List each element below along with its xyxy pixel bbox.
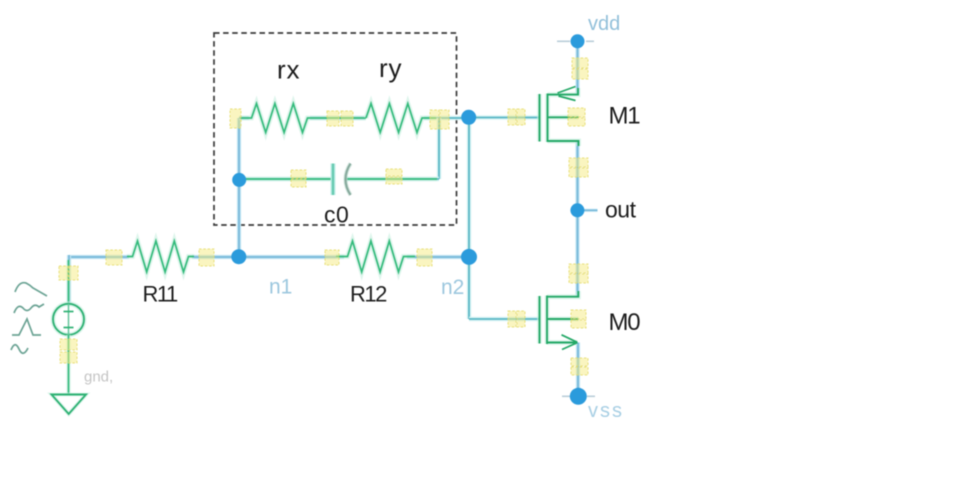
- capacitor C0 right plate (curved): [346, 164, 351, 196]
- svg-text:R11: R11: [143, 282, 178, 307]
- M1 source arrow: [558, 87, 576, 101]
- resistor ry: [366, 104, 436, 133]
- svg-text:n2: n2: [441, 276, 464, 299]
- svg-text:vss: vss: [588, 400, 624, 422]
- wire: vdd down to M1 source: [575, 41, 579, 94]
- svg-text:n1: n1: [269, 276, 292, 299]
- svg-text:vdd: vdd: [588, 13, 620, 35]
- resistor R12: [336, 241, 415, 272]
- ground symbol: [52, 395, 87, 415]
- transistor M0 (nmos4): [540, 291, 579, 350]
- wire: out stub to label: [584, 209, 598, 212]
- vsin waveform squiggles: [11, 283, 47, 354]
- voltage source V0 (vsin): [53, 260, 84, 394]
- wire: source top lead to R11 (horizontal): [69, 255, 239, 259]
- wire: M1 gate horizontal: [469, 115, 539, 120]
- svg-text:gnd,: gnd,: [84, 369, 113, 386]
- wire: right drop from ry to cap level: [437, 118, 442, 179]
- wire: vertical trunk n1 up to resistor row: [237, 118, 241, 257]
- transistor M1 (pmos4): [540, 87, 579, 147]
- vss supply ticks: [562, 395, 595, 397]
- wire: resistor row horizontal rx/ry: [239, 116, 469, 120]
- svg-text:out: out: [605, 197, 637, 223]
- node vss (dot): [570, 388, 587, 405]
- node at M1 gate wire: [461, 110, 476, 125]
- resistor rx: [240, 104, 366, 133]
- node at capacitor left: [232, 173, 246, 187]
- M0 source arrow: [562, 335, 578, 350]
- capacitor C0 left plate: [331, 164, 336, 196]
- svg-text:ry: ry: [379, 53, 402, 83]
- resistor R11: [127, 241, 194, 272]
- svg-text:M0: M0: [609, 309, 641, 336]
- dashed selection box around rx/ry/c0 network: [214, 33, 457, 225]
- svg-text:M1: M1: [609, 103, 641, 130]
- node out (dot): [570, 203, 584, 217]
- wire: M0 gate horizontal: [469, 317, 539, 322]
- node vdd (dot): [571, 34, 585, 48]
- svg-text:c0: c0: [324, 202, 349, 228]
- svg-text:rx: rx: [277, 55, 300, 85]
- node n1 (dot): [231, 249, 246, 264]
- capacitor C0 leads: [241, 177, 437, 182]
- vdd supply ticks: [557, 40, 594, 42]
- svg-text:R12: R12: [350, 282, 387, 307]
- node n2 (dot): [461, 249, 477, 265]
- wire: M0 source down to vss: [576, 343, 580, 397]
- wire: capacitor row horizontal: [239, 177, 439, 182]
- wire: M1 drain to M0 drain (out net): [575, 141, 579, 297]
- pin markers (yellow): [59, 58, 588, 375]
- wire: vertical from gate node down to M0 gate level: [467, 118, 472, 320]
- wire: corner down to source circle: [67, 255, 71, 304]
- wire: n1 to n2 (horizontal under R12): [239, 255, 470, 259]
